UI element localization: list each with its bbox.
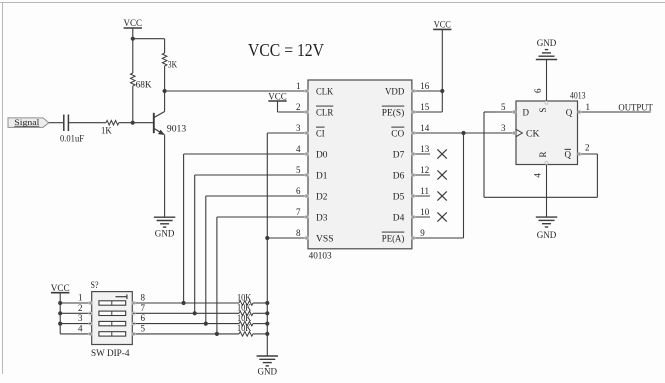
- svg-text:PE(S): PE(S): [382, 107, 405, 117]
- svg-text:5: 5: [501, 102, 506, 112]
- svg-text:8: 8: [296, 228, 301, 238]
- pin 9 number: [420, 228, 425, 238]
- capacitor C1 0.01uF: [60, 115, 84, 144]
- svg-text:40103: 40103: [309, 252, 332, 262]
- power VCC (DIP switch): [51, 284, 70, 294]
- wire D2 vertical drop: [205, 196, 207, 324]
- pin 8 number: [296, 228, 301, 238]
- pin 5 label D1: [316, 170, 328, 180]
- svg-text:4: 4: [78, 324, 83, 334]
- svg-text:S: S: [538, 108, 548, 113]
- svg-text:3: 3: [78, 313, 83, 323]
- DIP pin 5 number: [141, 324, 146, 334]
- svg-text:4013: 4013: [570, 92, 586, 102]
- power VCC (at CLR pin 2): [268, 92, 287, 102]
- pin 6 number (rotated): [533, 88, 543, 93]
- svg-text:0.01uF: 0.01uF: [60, 133, 84, 143]
- resistor 10K (row 1): [237, 292, 253, 305]
- wire D3 vertical drop: [216, 217, 218, 334]
- wire CO pin 14 to CK: [412, 132, 516, 134]
- junction CO node: [461, 131, 465, 135]
- svg-text:6: 6: [296, 186, 301, 196]
- junction row 2 at ground bus: [265, 311, 269, 315]
- pin 16 number: [420, 81, 430, 91]
- svg-text:D5: D5: [393, 191, 405, 201]
- switch rocker 3: [99, 321, 126, 325]
- wire CI pin 3 to ground bus: [267, 132, 308, 134]
- pin 13 label D7: [393, 149, 405, 159]
- svg-text:Signal: Signal: [14, 117, 40, 127]
- resistor 10K (row 4): [237, 323, 253, 336]
- wire VDD pin 16 to VCC: [412, 90, 442, 92]
- wire 68K to base node: [132, 86, 134, 123]
- wire Signal to C1: [49, 122, 64, 124]
- wire VCC down to PE(S) pin 15: [441, 29, 443, 112]
- pin CK label and clock mark: [516, 129, 540, 139]
- junction VCC-DIP row: [58, 311, 62, 315]
- pin 1 number: [296, 81, 301, 91]
- pin 8 label VSS: [316, 233, 334, 243]
- wire R1 to Q1 base: [119, 122, 154, 124]
- wire collector node to CLK pin 1: [165, 90, 308, 92]
- pin 12 label D6: [393, 170, 405, 180]
- no-connect X pin 13: [437, 149, 446, 158]
- wire R pin 4 stub to ground: [546, 165, 548, 218]
- svg-text:GND: GND: [537, 231, 557, 241]
- wire VCC to CLR pin 2: [278, 101, 309, 112]
- wire 3K to collector node: [164, 66, 166, 91]
- svg-text:VDD: VDD: [385, 86, 405, 96]
- pin 4 number: [296, 144, 301, 154]
- DIP pin 8 number: [141, 293, 146, 303]
- wire PE(A) pin 9 to CO node: [412, 133, 464, 238]
- wire D1 vertical drop: [194, 175, 196, 313]
- wire ground bus vertical: [266, 133, 268, 356]
- svg-text:3: 3: [501, 123, 506, 133]
- svg-text:1: 1: [586, 102, 591, 112]
- svg-text:GND: GND: [258, 367, 278, 377]
- svg-text:D6: D6: [393, 170, 405, 180]
- svg-text:12: 12: [420, 165, 429, 175]
- no-connect X pin 12: [437, 170, 446, 179]
- pin Q label: [566, 107, 573, 117]
- svg-text:13: 13: [420, 144, 430, 154]
- svg-text:8: 8: [141, 293, 146, 303]
- svg-text:9: 9: [420, 228, 425, 238]
- svg-text:4: 4: [296, 144, 301, 154]
- junction VSS/ground bus: [265, 236, 269, 240]
- pin 10 number: [420, 207, 430, 217]
- svg-text:9013: 9013: [167, 125, 187, 135]
- junction D0 at DIP row: [182, 301, 186, 305]
- wire DIP pin 5 to pulldown: [132, 333, 267, 335]
- pin 5 number: [501, 102, 506, 112]
- net label Signal (input port): [8, 117, 49, 128]
- svg-text:3K: 3K: [168, 60, 178, 70]
- pin 6 label D2: [316, 191, 328, 201]
- pin 13 no-connect stub: [412, 153, 430, 155]
- wire C1 to R1: [68, 122, 106, 124]
- resistor 10K (row 2): [237, 303, 253, 316]
- wire D3 pin 7 horizontal: [217, 216, 308, 218]
- wire Qbar feedback loop: [484, 112, 597, 197]
- pin 15 label PE(S): [382, 106, 405, 117]
- pin 10 label D4: [393, 212, 405, 222]
- power VCC (top right): [433, 21, 451, 31]
- svg-text:10K: 10K: [237, 303, 252, 313]
- svg-text:14: 14: [420, 123, 430, 133]
- svg-text:Q: Q: [565, 150, 572, 160]
- svg-text:4: 4: [533, 173, 543, 178]
- pin 9 label PE(A): [382, 232, 405, 243]
- pin 16 label VDD: [385, 86, 405, 96]
- DIP pin 3 number: [78, 313, 83, 323]
- pin 2 label CLR: [316, 106, 333, 117]
- net label OUTPUT: [618, 103, 653, 113]
- junction D1 at DIP row: [193, 311, 197, 315]
- wire D0 vertical drop: [183, 154, 185, 303]
- pin 12 no-connect stub: [412, 174, 430, 176]
- wire D0 pin 4 horizontal: [184, 153, 308, 155]
- resistor R2 68K: [131, 73, 153, 90]
- svg-text:Q: Q: [566, 107, 573, 117]
- pin 3 label CI: [316, 127, 325, 138]
- junction VCC-DIP row: [58, 301, 62, 305]
- pin R label (rotated): [538, 151, 548, 157]
- svg-text:11: 11: [420, 186, 429, 196]
- svg-text:D0: D0: [316, 149, 328, 159]
- resistor R1 1K: [101, 120, 119, 135]
- pin 3 number: [501, 123, 506, 133]
- junction VCC-DIP row: [58, 322, 62, 326]
- junction row 3 at ground bus: [265, 322, 269, 326]
- svg-text:CO: CO: [391, 128, 405, 138]
- junction base node: [131, 121, 135, 125]
- pin 4 number (rotated): [533, 173, 543, 178]
- DIP pin 4 number: [78, 324, 83, 334]
- svg-text:7: 7: [141, 303, 146, 313]
- ground GND (pulldown bus): [257, 356, 278, 377]
- wire DIP pin 6 to pulldown: [132, 323, 267, 325]
- junction row 4 at ground bus: [265, 332, 269, 336]
- switch actuator mark: [116, 294, 127, 299]
- IC U2 4013 flip-flop body: [516, 92, 586, 165]
- svg-text:10K: 10K: [237, 313, 252, 323]
- svg-text:10K: 10K: [237, 292, 252, 302]
- ground GND (below 4013): [536, 217, 557, 241]
- wire S pin 6 stub to ground: [546, 59, 548, 101]
- pin 14 number: [420, 123, 430, 133]
- svg-text:OUTPUT: OUTPUT: [618, 103, 653, 113]
- pin 11 label D5: [393, 191, 405, 201]
- svg-text:68K: 68K: [136, 80, 153, 90]
- pin connect marks (light): [89, 90, 581, 336]
- junction collector node: [163, 89, 167, 93]
- pin 10 no-connect stub: [412, 216, 430, 218]
- svg-text:5: 5: [141, 324, 146, 334]
- svg-text:7: 7: [296, 207, 301, 217]
- svg-text:CK: CK: [526, 129, 540, 139]
- pin 13 number: [420, 144, 430, 154]
- pin 7 number: [296, 207, 301, 217]
- IC U1 40103 counter body: [308, 80, 412, 262]
- svg-text:S?: S?: [91, 281, 99, 291]
- wire DIP pin 8 to pulldown: [132, 302, 267, 304]
- pin 11 no-connect stub: [412, 195, 430, 197]
- svg-text:D3: D3: [316, 212, 328, 222]
- pin 7 label D3: [316, 212, 328, 222]
- wire Q pin 1 to OUTPUT: [578, 111, 651, 113]
- svg-text:D4: D4: [393, 212, 405, 222]
- pin 11 number: [420, 186, 429, 196]
- svg-text:6: 6: [533, 88, 543, 93]
- wire D2 pin 6 horizontal: [206, 195, 308, 197]
- svg-text:D: D: [523, 107, 530, 117]
- wire VCC bus to DIP pins 1-4: [60, 293, 91, 334]
- switch rocker 1: [99, 301, 126, 305]
- pin 1 label CLK: [316, 86, 334, 96]
- pin 1 number: [586, 102, 591, 112]
- wire VSS pin 8 to ground bus: [267, 237, 308, 239]
- pin 4 label D0: [316, 149, 328, 159]
- svg-text:CLR: CLR: [316, 107, 333, 117]
- note VCC = 12V: [248, 40, 324, 60]
- DIP pin 7 number: [141, 303, 146, 313]
- resistor 10K (row 3): [237, 313, 253, 326]
- resistor R3 3K: [162, 53, 177, 70]
- pin 2 number: [585, 143, 590, 153]
- junction VDD node: [440, 89, 444, 93]
- svg-text:VSS: VSS: [316, 233, 334, 243]
- svg-text:R: R: [538, 151, 548, 157]
- pin 2 number: [296, 102, 301, 112]
- junction D2 at DIP row: [204, 322, 208, 326]
- pin 15 number: [420, 102, 430, 112]
- svg-text:D7: D7: [393, 149, 405, 159]
- ground GND (above 4013, inverted): [536, 39, 557, 60]
- svg-text:1: 1: [78, 293, 83, 303]
- pin 6 number: [296, 186, 301, 196]
- svg-text:2: 2: [78, 303, 83, 313]
- svg-text:SW DIP-4: SW DIP-4: [91, 349, 130, 359]
- wire D1 pin 5 horizontal: [195, 174, 308, 176]
- pin 3 number: [296, 123, 301, 133]
- power VCC (top left): [124, 19, 143, 29]
- svg-text:CI: CI: [316, 128, 325, 138]
- svg-text:GND: GND: [537, 39, 557, 49]
- DIP pin 1 number: [78, 293, 83, 303]
- no-connect X pin 10: [437, 212, 446, 221]
- wire D pin 5 stub: [496, 111, 516, 113]
- pin 12 number: [420, 165, 429, 175]
- wire VCC down to branch: [132, 28, 134, 73]
- wire VCC branch to 3K: [133, 39, 165, 53]
- pin D label: [523, 107, 530, 117]
- transistor Q1 9013 NPN: [154, 91, 187, 135]
- svg-text:10: 10: [420, 207, 430, 217]
- DIP pin 2 number: [78, 303, 83, 313]
- svg-text:15: 15: [420, 102, 430, 112]
- svg-text:1: 1: [296, 81, 301, 91]
- switch S? SW DIP-4 body: [91, 281, 133, 359]
- svg-text:10K: 10K: [237, 323, 252, 333]
- pin Qbar label: [565, 149, 572, 159]
- svg-text:2: 2: [296, 102, 301, 112]
- svg-text:PE(A): PE(A): [382, 233, 405, 243]
- svg-text:3: 3: [296, 123, 301, 133]
- junction VCC branch: [131, 37, 135, 41]
- junction D3 at DIP row: [215, 332, 219, 336]
- svg-text:VCC = 12V: VCC = 12V: [248, 40, 324, 60]
- svg-text:GND: GND: [155, 230, 175, 240]
- ground GND (below Q1): [154, 217, 175, 239]
- wire PE(S) pin 15 horizontal: [412, 111, 442, 113]
- svg-text:CLK: CLK: [316, 86, 334, 96]
- svg-text:D2: D2: [316, 191, 328, 201]
- no-connect X pin 11: [437, 191, 446, 200]
- svg-text:D1: D1: [316, 170, 328, 180]
- svg-text:5: 5: [296, 165, 301, 175]
- wire DIP pin 7 to pulldown: [132, 312, 267, 314]
- junction row 1 at ground bus: [265, 301, 269, 305]
- svg-text:1K: 1K: [101, 126, 112, 136]
- switch rocker 2: [99, 311, 126, 315]
- pin S label (rotated): [538, 108, 548, 113]
- wire Q1 emitter to ground: [164, 135, 166, 218]
- pin 5 number: [296, 165, 301, 175]
- switch rocker 4: [99, 332, 126, 336]
- DIP pin 6 number: [141, 313, 146, 323]
- svg-text:2: 2: [585, 143, 590, 153]
- pin 14 label CO: [391, 127, 405, 138]
- svg-text:16: 16: [420, 81, 430, 91]
- svg-text:6: 6: [141, 313, 146, 323]
